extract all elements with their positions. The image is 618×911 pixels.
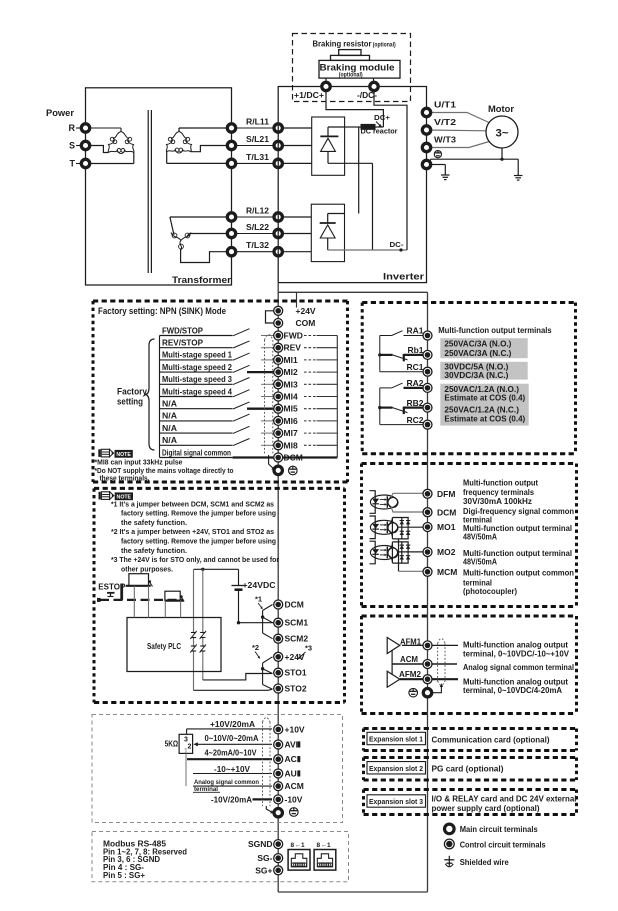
- svg-text:W/T3: W/T3: [434, 134, 456, 144]
- svg-text:Main circuit terminals: Main circuit terminals: [460, 824, 538, 834]
- svg-text:Rb1: Rb1: [407, 345, 423, 355]
- svg-text:Expansion slot 3: Expansion slot 3: [369, 797, 423, 806]
- svg-text:Factory setting: NPN (SINK) Mo: Factory setting: NPN (SINK) Mode: [98, 306, 226, 316]
- svg-text:250VAC/3A (N.O.): 250VAC/3A (N.O.): [444, 339, 511, 348]
- svg-text:*3 The +24V is for STO only, a: *3 The +24V is for STO only, and cannot …: [111, 555, 279, 564]
- svg-text:T: T: [70, 159, 76, 169]
- svg-text:+24V: +24V: [285, 652, 305, 662]
- svg-text:MI8: MI8: [284, 440, 298, 450]
- svg-text:FWD: FWD: [284, 331, 303, 341]
- svg-text:MO2: MO2: [437, 547, 456, 557]
- svg-text:N/A: N/A: [162, 399, 177, 409]
- svg-text:DC-: DC-: [390, 240, 405, 249]
- svg-text:Safety PLC: Safety PLC: [147, 642, 181, 651]
- svg-text:V/T2: V/T2: [434, 117, 456, 127]
- svg-text:Factory: Factory: [117, 387, 147, 397]
- svg-text:I/O & RELAY card and DC 24V ex: I/O & RELAY card and DC 24V external: [432, 794, 577, 804]
- svg-text:ACM: ACM: [285, 781, 304, 791]
- svg-text:these terminals.: these terminals.: [100, 473, 150, 482]
- svg-text:Analog signal common terminal: Analog signal common terminal: [463, 662, 574, 672]
- svg-text:power supply card (optional): power supply card (optional): [432, 803, 540, 813]
- svg-text:RB2: RB2: [406, 398, 423, 408]
- svg-text:DC+: DC+: [374, 113, 391, 122]
- svg-text:DC reactor: DC reactor: [361, 127, 398, 136]
- svg-text:3: 3: [184, 736, 188, 743]
- svg-text:Control circuit terminals: Control circuit terminals: [460, 839, 546, 849]
- svg-text:MI4: MI4: [284, 392, 298, 402]
- svg-text:-10V/20mA: -10V/20mA: [211, 795, 252, 804]
- svg-text:R/L11: R/L11: [246, 116, 269, 126]
- svg-text:+24VDC: +24VDC: [243, 580, 276, 590]
- svg-text:PG card (optional): PG card (optional): [432, 764, 504, 774]
- svg-text:AVI: AVI: [285, 740, 299, 750]
- svg-text:Multi-function output common: Multi-function output common: [463, 568, 574, 578]
- svg-text:RC1: RC1: [406, 362, 423, 372]
- svg-text:S/L21: S/L21: [246, 134, 269, 144]
- svg-text:MI1: MI1: [284, 355, 298, 365]
- svg-text:S/L22: S/L22: [246, 222, 269, 232]
- svg-text:*2: *2: [252, 643, 259, 652]
- svg-text:SGND: SGND: [248, 839, 273, 849]
- svg-text:(photocoupler): (photocoupler): [463, 586, 517, 596]
- svg-text:SCM1: SCM1: [285, 618, 309, 628]
- svg-text:250VAC/1.2A (N.O.): 250VAC/1.2A (N.O.): [444, 385, 519, 394]
- svg-text:48V/50mA: 48V/50mA: [463, 532, 497, 542]
- svg-text:STO1: STO1: [285, 668, 307, 678]
- svg-text:Multi-stage speed 2: Multi-stage speed 2: [162, 362, 232, 372]
- svg-text:COM: COM: [296, 318, 316, 328]
- svg-text:5KΩ: 5KΩ: [165, 739, 179, 748]
- svg-text:REV/STOP: REV/STOP: [162, 338, 203, 348]
- svg-text:terminal, 0~10VDC/-10~+10V: terminal, 0~10VDC/-10~+10V: [463, 649, 569, 659]
- svg-text:Motor: Motor: [488, 104, 515, 114]
- svg-text:(optional): (optional): [339, 73, 363, 79]
- svg-text:SG-: SG-: [257, 853, 272, 863]
- svg-text:terminal, 0~10VDC/4-20mA: terminal, 0~10VDC/4-20mA: [463, 685, 562, 695]
- svg-text:(optional): (optional): [373, 43, 396, 49]
- svg-text:2: 2: [188, 743, 192, 750]
- svg-text:R: R: [69, 123, 76, 133]
- svg-text:Shielded wire: Shielded wire: [460, 857, 509, 867]
- svg-text:MO1: MO1: [437, 522, 456, 532]
- svg-text:R/L12: R/L12: [246, 205, 269, 215]
- svg-text:the safety function.: the safety function.: [121, 518, 187, 527]
- svg-text:factory setting. Remove the ju: factory setting. Remove the jumper befor…: [121, 509, 276, 518]
- svg-text:+24V: +24V: [296, 306, 316, 316]
- svg-text:AFM1: AFM1: [400, 636, 421, 646]
- svg-text:4~20mA/0~10V: 4~20mA/0~10V: [205, 749, 258, 758]
- svg-text:Multi-function output terminal: Multi-function output terminals: [438, 325, 552, 335]
- svg-text:AUI: AUI: [285, 769, 300, 779]
- svg-text:FWD/STOP: FWD/STOP: [162, 325, 203, 335]
- svg-text:Communication card (optional): Communication card (optional): [432, 735, 550, 745]
- svg-text:1: 1: [301, 842, 305, 849]
- svg-text:Transformer: Transformer: [172, 275, 231, 286]
- svg-text:AFM2: AFM2: [399, 669, 421, 679]
- svg-text:-10V: -10V: [285, 794, 303, 804]
- svg-text:+10V: +10V: [285, 724, 305, 734]
- svg-text:T/L32: T/L32: [246, 240, 269, 250]
- svg-text:ACI: ACI: [285, 754, 300, 764]
- svg-text:SCM2: SCM2: [285, 634, 309, 644]
- svg-text:1: 1: [327, 842, 331, 849]
- svg-text:REV: REV: [284, 343, 302, 353]
- svg-text:RA1: RA1: [406, 326, 423, 336]
- svg-text:T/L31: T/L31: [246, 152, 269, 162]
- svg-text:factory setting. Remove the ju: factory setting. Remove the jumper befor…: [121, 537, 276, 546]
- svg-text:Inverter: Inverter: [383, 272, 424, 283]
- svg-text:+10V/20mA: +10V/20mA: [210, 720, 255, 729]
- svg-text:other purposes.: other purposes.: [121, 564, 173, 573]
- svg-text:-10~+10V: -10~+10V: [214, 765, 251, 774]
- svg-text:250VAC/3A (N.C.): 250VAC/3A (N.C.): [444, 349, 511, 358]
- svg-text:0~10V/0~20mA: 0~10V/0~20mA: [205, 734, 259, 743]
- svg-text:N/A: N/A: [162, 435, 177, 445]
- svg-text:S: S: [69, 141, 75, 151]
- svg-text:RC2: RC2: [406, 415, 423, 425]
- svg-text:DCM: DCM: [285, 600, 304, 610]
- svg-text:*2 It's a jumper between +24V,: *2 It's a jumper between +24V, STO1 and …: [111, 527, 274, 536]
- svg-text:MI2: MI2: [284, 367, 298, 377]
- svg-text:30V/30mA 100kHz: 30V/30mA 100kHz: [463, 496, 532, 506]
- svg-text:Estimate at COS (0.4): Estimate at COS (0.4): [444, 414, 525, 423]
- svg-text:RA2: RA2: [406, 378, 423, 388]
- svg-text:Power: Power: [46, 108, 74, 119]
- svg-text:N/A: N/A: [162, 423, 177, 433]
- svg-text:+1/DC+: +1/DC+: [294, 90, 324, 100]
- svg-text:SG+: SG+: [255, 865, 272, 875]
- svg-text:Multi-stage speed 4: Multi-stage speed 4: [162, 386, 232, 396]
- svg-text:DFM: DFM: [437, 489, 455, 499]
- svg-text:Pin 5 : SG+: Pin 5 : SG+: [103, 871, 145, 880]
- svg-text:MI5: MI5: [284, 404, 298, 414]
- svg-text:Expansion slot 1: Expansion slot 1: [369, 735, 423, 744]
- svg-text:MI6: MI6: [284, 416, 298, 426]
- svg-text:Multi-stage speed 1: Multi-stage speed 1: [162, 350, 232, 360]
- svg-text:30VDC/3A (N.C.): 30VDC/3A (N.C.): [444, 371, 508, 380]
- svg-text:48V/50mA: 48V/50mA: [463, 557, 497, 567]
- svg-text:DCM: DCM: [284, 453, 303, 463]
- svg-text:Expansion slot 2: Expansion slot 2: [369, 764, 423, 773]
- svg-text:3~: 3~: [496, 128, 510, 140]
- svg-text:STO2: STO2: [285, 684, 307, 694]
- svg-text:the safety function.: the safety function.: [121, 546, 187, 555]
- svg-text:ACM: ACM: [400, 654, 418, 664]
- svg-text:*1 It's a jumper between DCM,: *1 It's a jumper between DCM, SCM1 and S…: [111, 499, 274, 508]
- svg-text:MI3: MI3: [284, 379, 298, 389]
- svg-text:Digital signal common: Digital signal common: [162, 447, 231, 457]
- svg-text:*1: *1: [255, 595, 262, 604]
- svg-text:Estimate at COS (0.4): Estimate at COS (0.4): [444, 394, 525, 403]
- svg-text:Multi-stage speed 3: Multi-stage speed 3: [162, 374, 232, 384]
- svg-text:N/A: N/A: [162, 411, 177, 421]
- svg-text:MCM: MCM: [437, 567, 457, 577]
- svg-text:Braking resistor: Braking resistor: [313, 38, 373, 48]
- svg-text:250VAC/1.2A (N.C.): 250VAC/1.2A (N.C.): [444, 405, 519, 414]
- svg-text:U/T1: U/T1: [434, 99, 456, 109]
- svg-text:Analog signal common: Analog signal common: [194, 779, 259, 786]
- svg-text:*3: *3: [305, 644, 312, 653]
- svg-text:MI7: MI7: [284, 428, 298, 438]
- svg-text:DCM: DCM: [437, 507, 456, 517]
- svg-text:setting: setting: [117, 397, 143, 407]
